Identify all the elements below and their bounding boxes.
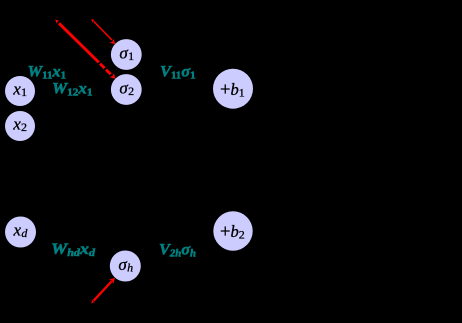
red backprop arrow 2 (thin, from above into sigma1)	[91, 19, 115, 44]
node xd	[5, 217, 36, 248]
red backprop arrow 3 (from below-left into sigmah)	[91, 278, 115, 304]
node x1	[5, 76, 35, 106]
red backprop arrow 1 upper solid segment (thick, from above toward sigma2)	[55, 20, 99, 63]
node sigma2	[111, 74, 142, 105]
node b1	[213, 69, 253, 109]
node sigmah	[110, 251, 141, 282]
node b2	[213, 211, 252, 250]
node sigma1	[111, 39, 142, 70]
red backprop arrow 1 dashed lower segment with arrowhead into sigma2	[100, 64, 116, 79]
node x2	[5, 111, 35, 141]
